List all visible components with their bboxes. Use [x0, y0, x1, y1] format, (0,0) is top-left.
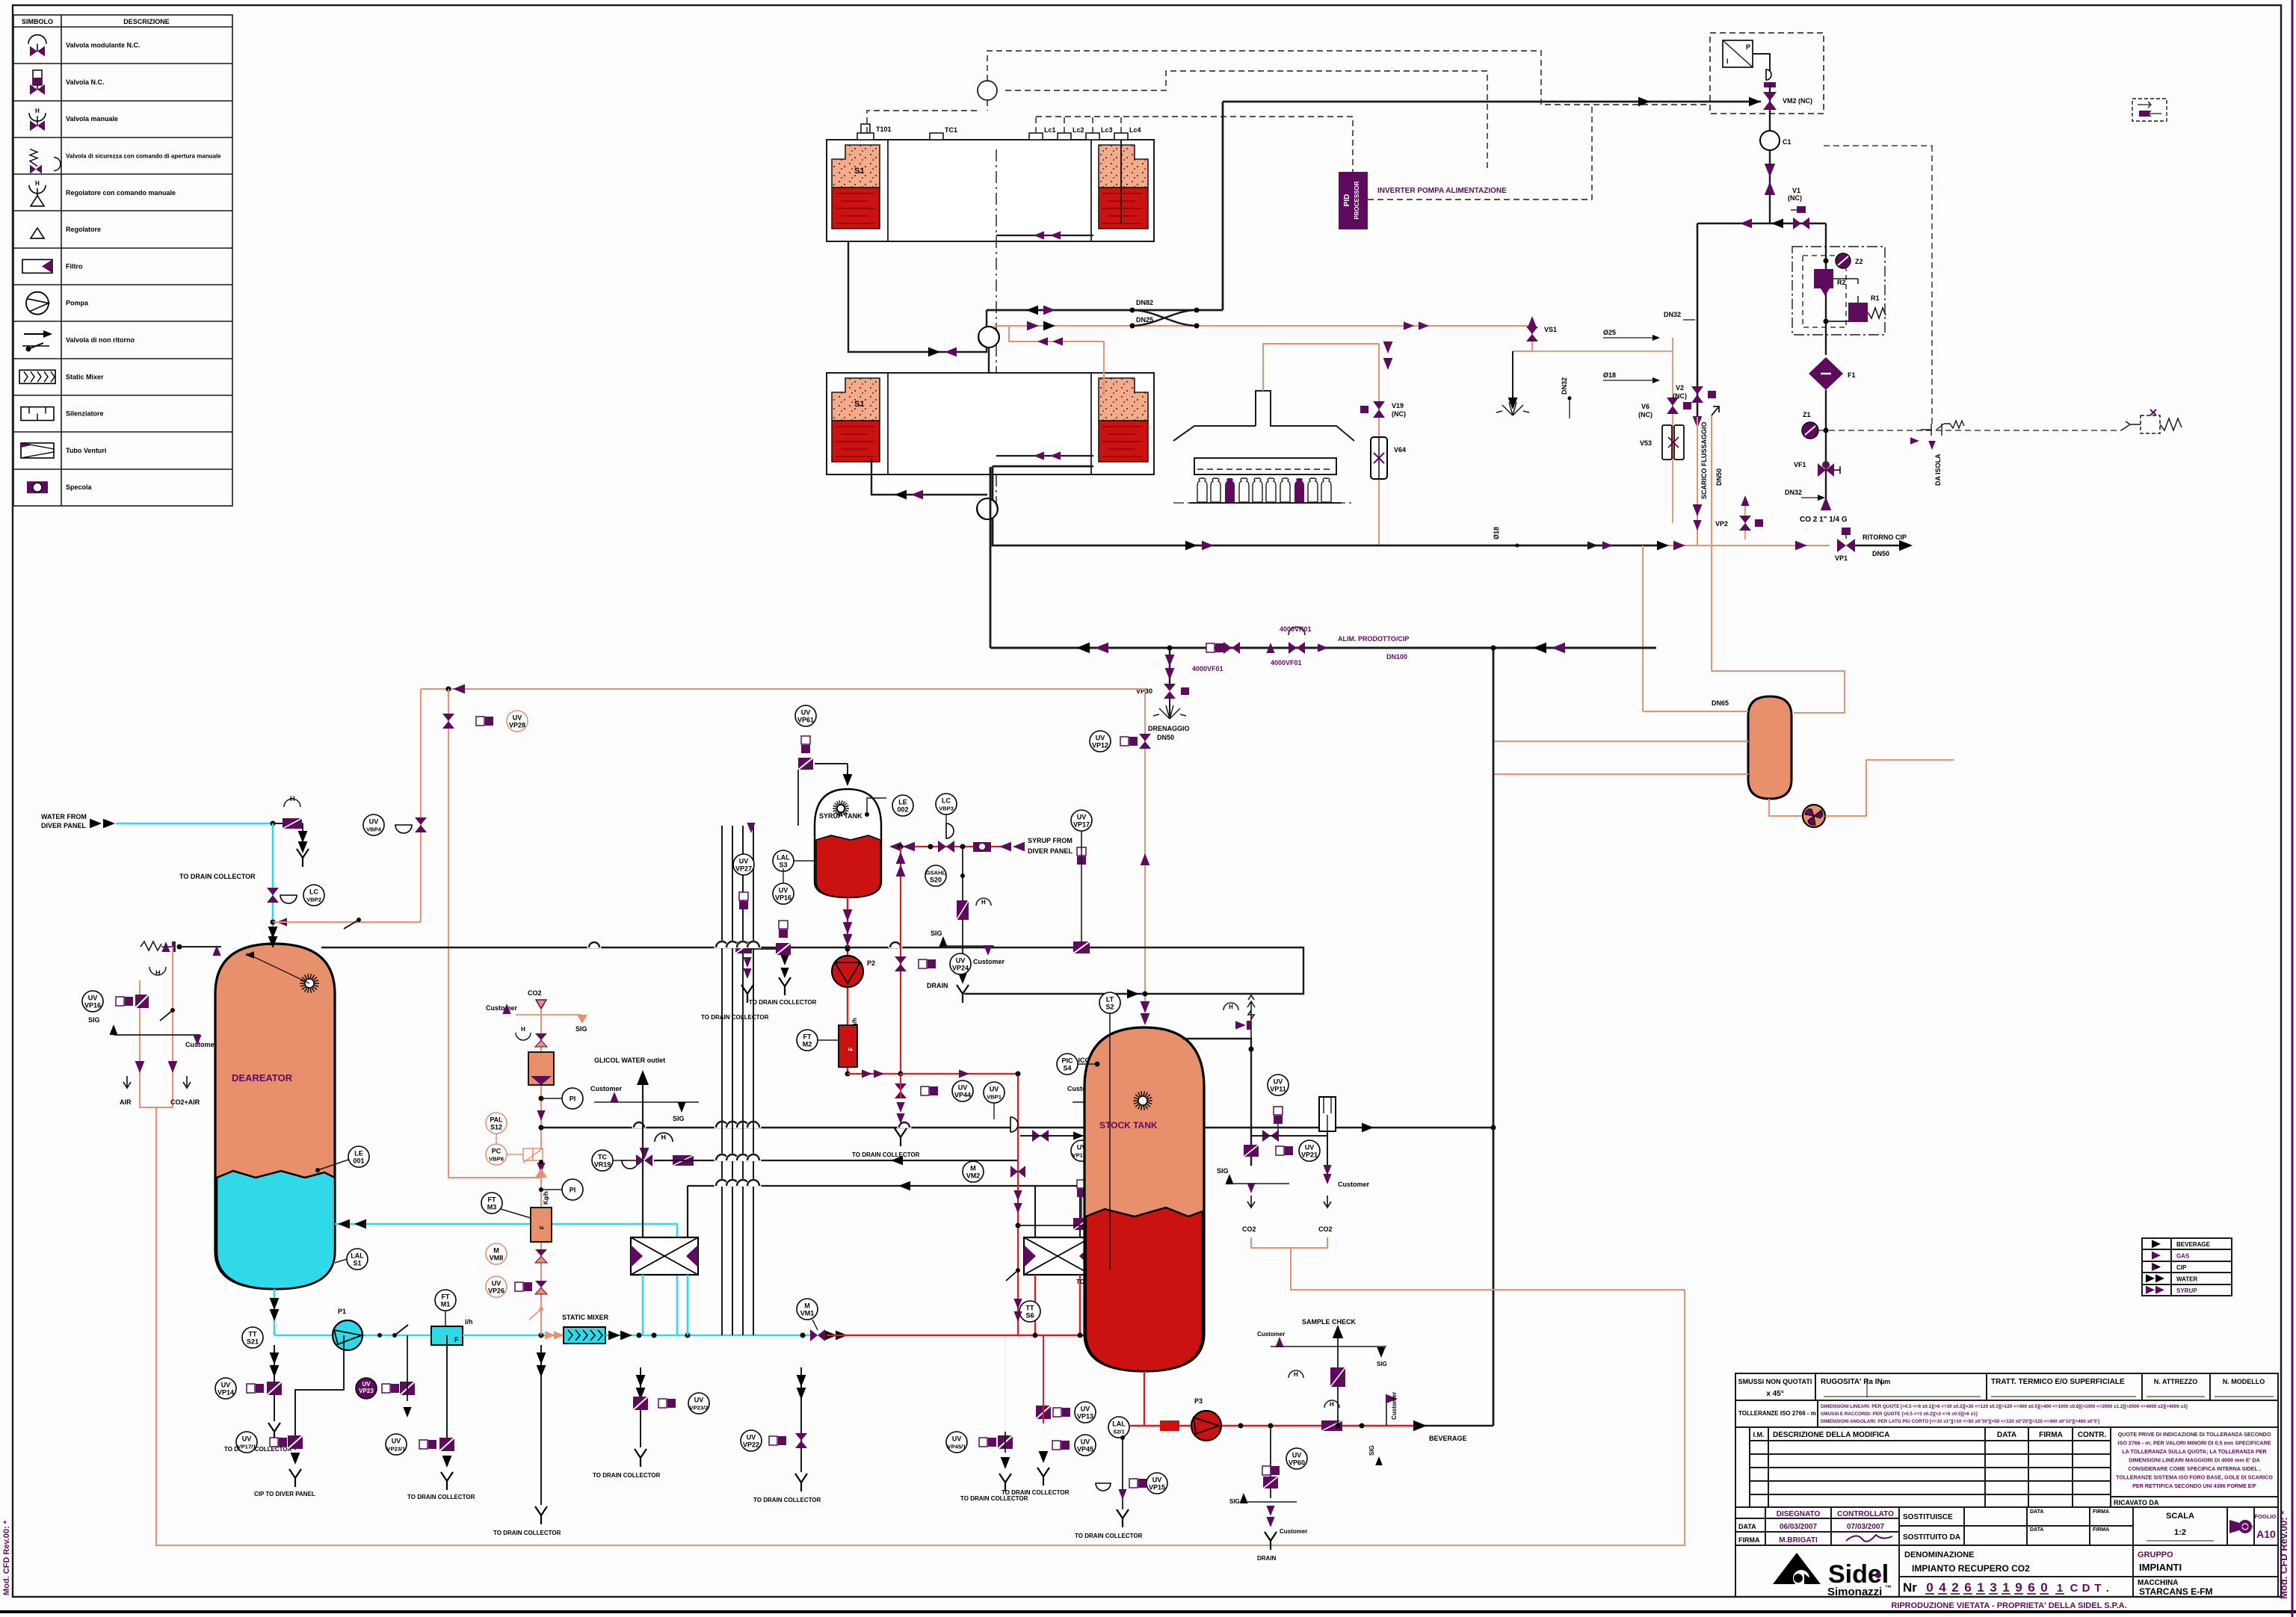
- CO2+AIR outlet: [183, 1076, 191, 1088]
- customer flag: [1386, 1403, 1387, 1426]
- svg-text:VBP1: VBP1: [987, 1094, 1002, 1101]
- svg-text:VP14: VP14: [217, 1389, 234, 1397]
- instrument UV VP15: [1147, 1473, 1167, 1494]
- svg-text:SIG: SIG: [673, 1115, 685, 1122]
- svg-text:DIVER PANEL: DIVER PANEL: [1028, 847, 1073, 855]
- svg-text:SIMBOLO: SIMBOLO: [22, 18, 53, 25]
- wire DN82 CO2 header: [987, 309, 1223, 312]
- svg-text:RUGOSITA' Ra IN: RUGOSITA' Ra IN: [1821, 1378, 1883, 1386]
- instrument UV VP60: [1286, 1448, 1307, 1469]
- instrument UV VBP1: [1155, 1072, 1176, 1092]
- gauge PI upper: [539, 1096, 544, 1101]
- drain column: [274, 1345, 275, 1421]
- wire gas balance deaerator to stock tank (orange): [421, 689, 1145, 1001]
- svg-text:UV: UV: [956, 957, 966, 965]
- svg-text:Customer: Customer: [185, 1041, 217, 1048]
- valve + UV VP21: [1244, 1145, 1259, 1157]
- machine centreline (dash-dot): [996, 149, 997, 516]
- svg-text:VP28: VP28: [509, 722, 525, 729]
- svg-text:Valvola modulante N.C.: Valvola modulante N.C.: [66, 42, 141, 49]
- svg-text:Customer: Customer: [590, 1085, 623, 1092]
- svg-text:DIMENSIONI ANGOLARI: PER LATO: DIMENSIONI ANGOLARI: PER LATO PIU CORTO …: [1821, 1418, 2099, 1424]
- svg-text:TO DRAIN COLLECTOR: TO DRAIN COLLECTOR: [593, 1472, 661, 1479]
- svg-text:2: 2: [1951, 1580, 1958, 1595]
- product block S1 left (red liquid): [832, 188, 880, 229]
- exchanger2 downcomers (red): [1034, 1275, 1036, 1335]
- svg-text:Pompa: Pompa: [66, 300, 89, 307]
- svg-text:SIG: SIG: [1377, 1361, 1387, 1367]
- svg-text:S1: S1: [854, 167, 864, 176]
- svg-text:DN32: DN32: [1664, 311, 1681, 318]
- valve UV VP16 row: [116, 997, 124, 1006]
- valve M VM8: [535, 1249, 547, 1256]
- svg-text:FOGLIO: FOGLIO: [2255, 1513, 2277, 1520]
- instrument UV VP28: [507, 711, 528, 732]
- svg-text:1: 1: [2057, 1582, 2063, 1595]
- instrument TT S21: [242, 1327, 263, 1348]
- svg-text:INVERTER POMPA ALIMENTAZIONE: INVERTER POMPA ALIMENTAZIONE: [1377, 187, 1507, 195]
- instrument FT M3: [481, 1193, 502, 1213]
- nozzle Lc2: [1058, 133, 1071, 140]
- instrument PI: [562, 1179, 583, 1200]
- wire CO2 top header: [1697, 223, 1826, 224]
- instrument UV VP12: [1090, 731, 1111, 752]
- orange continuation of V2 line: [1697, 417, 1698, 545]
- valve cluster 4000VF01: [1223, 642, 1232, 654]
- svg-text:R2: R2: [1837, 279, 1846, 286]
- svg-text:1: 1: [1977, 1580, 1984, 1595]
- instrument UV VP17/1: [236, 1432, 257, 1453]
- svg-text:DN100: DN100: [1386, 653, 1407, 661]
- relief with spring: [1247, 995, 1255, 1039]
- instrument UV VP22: [741, 1430, 762, 1451]
- svg-text:GSAHL: GSAHL: [926, 870, 946, 876]
- wire converter to valve VM2: [1753, 54, 1770, 71]
- stock tank bottom outlet: [1144, 1371, 1145, 1426]
- svg-text:UV: UV: [801, 709, 811, 717]
- instrument UV VP23/1: [386, 1434, 407, 1455]
- wire beverage (red): [1129, 1425, 1415, 1426]
- svg-text:LE: LE: [354, 1150, 363, 1157]
- svg-text:4: 4: [1939, 1580, 1946, 1595]
- valve 4000VR01 manual: [1289, 642, 1297, 654]
- svg-text:AIR: AIR: [120, 1098, 132, 1106]
- instrument UV VP45/1: [946, 1432, 967, 1453]
- wire CO2 column (orange): [540, 1009, 542, 1335]
- hand valve beverage: [1321, 1420, 1342, 1431]
- svg-text:S1: S1: [353, 1260, 361, 1267]
- svg-text:V1: V1: [1792, 187, 1800, 194]
- instrument PIC S4: [1057, 1054, 1078, 1075]
- svg-text:VP11: VP11: [1270, 1086, 1286, 1093]
- svg-text:PI: PI: [570, 1095, 576, 1103]
- svg-text:VP45: VP45: [1077, 1446, 1093, 1453]
- svg-text:S1: S1: [854, 400, 864, 409]
- wire machine outlet main: [993, 466, 1667, 545]
- svg-text:DN50: DN50: [1715, 469, 1723, 486]
- wire deaerator outlet (cyan): [274, 1289, 276, 1335]
- svg-text:LE: LE: [898, 799, 907, 806]
- svg-text:Customer: Customer: [1280, 1528, 1307, 1535]
- svg-text:UV: UV: [492, 1280, 502, 1287]
- svg-text:LA TOLLERANZA SULLA QUOTA; LA: LA TOLLERANZA SULLA QUOTA; LA TOLLERANZA…: [2122, 1448, 2267, 1455]
- svg-text:FIRMA: FIRMA: [2039, 1431, 2063, 1439]
- instrument M VM2: [963, 1161, 984, 1182]
- svg-text:ALIM. PRODOTTO/CIP: ALIM. PRODOTTO/CIP: [1338, 635, 1409, 643]
- island pressure regulator symbol: [2121, 421, 2141, 430]
- filter F1: [1809, 357, 1843, 390]
- svg-text:Valvola N.C.: Valvola N.C.: [66, 78, 105, 86]
- svg-text:F: F: [539, 1225, 546, 1229]
- svg-text:DATA: DATA: [2030, 1527, 2043, 1533]
- svg-text:SIG: SIG: [1217, 1167, 1229, 1175]
- svg-text:Valvola manuale: Valvola manuale: [66, 115, 118, 123]
- orange CIP drop into tank2 right: [1009, 326, 1104, 341]
- product block S1 right (speckled): [1099, 145, 1148, 188]
- wire drain header down (orange): [156, 1107, 1685, 1545]
- syrup liquid: [816, 835, 880, 897]
- svg-text:™: ™: [1885, 1584, 1892, 1592]
- svg-text:UV: UV: [392, 1438, 401, 1445]
- svg-text:DATA: DATA: [2030, 1509, 2043, 1515]
- svg-text:STOCK TANK: STOCK TANK: [1099, 1120, 1158, 1131]
- svg-text:VP23/1: VP23/1: [387, 1446, 407, 1453]
- valve LC VBP3: [946, 823, 954, 838]
- exchanger1 downcomers (cyan): [642, 1275, 644, 1335]
- valve V19 (NC): [1373, 401, 1385, 409]
- svg-text:Silenziatore: Silenziatore: [66, 410, 104, 418]
- branch VP30 drain: [1169, 648, 1170, 686]
- PID PROCESSOR box: [1339, 172, 1368, 229]
- heat exchanger 1: [631, 1237, 698, 1275]
- svg-text:VBP3: VBP3: [939, 806, 954, 812]
- svg-text:.: .: [2106, 1583, 2109, 1594]
- regulator R1: [1848, 303, 1868, 322]
- svg-text:Kg/h: Kg/h: [543, 1191, 549, 1205]
- CO2 heater: [528, 1052, 554, 1085]
- svg-text:BEVERAGE: BEVERAGE: [2176, 1241, 2211, 1248]
- instrument UV VP13: [1075, 1402, 1096, 1423]
- three way valve VR19: [636, 1154, 644, 1166]
- valve VF1: [1818, 463, 1826, 477]
- svg-text:TO DRAIN COLLECTOR: TO DRAIN COLLECTOR: [224, 1446, 292, 1453]
- wire ALIM PRODOTTO/CIP DN100: [990, 647, 1656, 649]
- valve UV VP28 stub: [448, 689, 449, 981]
- junction main line: [537, 1110, 545, 1121]
- svg-text:LAL: LAL: [777, 854, 790, 862]
- wire DN82 drop to tank 2: [848, 241, 987, 352]
- valve LC VBP2: [267, 888, 279, 895]
- svg-text:LC: LC: [942, 797, 951, 805]
- wire F1 to CO2 supply: [1825, 390, 1827, 499]
- vessel outlet to blower: [1769, 799, 1803, 816]
- level probe tank1 right: [1120, 140, 1122, 224]
- svg-text:D: D: [2082, 1582, 2090, 1595]
- svg-text:S21: S21: [247, 1338, 259, 1346]
- receiver vessel: [1748, 696, 1792, 799]
- svg-text:UV: UV: [513, 714, 522, 722]
- legend table frame: [13, 15, 232, 506]
- svg-text:N. MODELLO: N. MODELLO: [2223, 1378, 2265, 1385]
- wire vent to VBP4 (orange): [273, 921, 421, 923]
- svg-text:CO2+AIR: CO2+AIR: [170, 1098, 200, 1106]
- wire deaerator balance line: [321, 947, 1303, 994]
- svg-text:VP15: VP15: [1149, 1484, 1165, 1491]
- svg-text:ISO 2766 - m; PER VALORI MINOR: ISO 2766 - m; PER VALORI MINORI DI 0.5 m…: [2117, 1440, 2271, 1447]
- sight glass C1: [1769, 120, 1771, 223]
- svg-text:Nr: Nr: [1903, 1580, 1917, 1595]
- svg-text:VP44: VP44: [954, 1092, 971, 1099]
- svg-text:0: 0: [1926, 1580, 1933, 1595]
- svg-text:Simonazzi: Simonazzi: [1827, 1586, 1882, 1598]
- stock tank top outlet: [1182, 1039, 1251, 1166]
- nozzle Lc1: [1029, 133, 1043, 140]
- svg-text:TO DRAIN COLLECTOR: TO DRAIN COLLECTOR: [852, 1151, 920, 1158]
- wire glycol tempering: [654, 1160, 1018, 1161]
- svg-text:S2: S2: [1105, 1004, 1114, 1011]
- svg-text:4000VF01: 4000VF01: [1271, 659, 1302, 667]
- valve VP2 stub: [1744, 505, 1746, 539]
- svg-text:IMPIANTI: IMPIANTI: [2139, 1562, 2182, 1573]
- instrument LE 001: [318, 1160, 348, 1170]
- svg-text:UV: UV: [1305, 1144, 1315, 1151]
- wire deaerator vent corner: [420, 689, 422, 922]
- svg-text:Filtro: Filtro: [66, 262, 83, 270]
- valve UV VBP4: [415, 817, 427, 825]
- vent loop left (orange): [140, 947, 173, 1107]
- svg-text:07/03/2007: 07/03/2007: [1847, 1523, 1884, 1531]
- instrument UV VP61: [795, 705, 816, 726]
- svg-text:S6: S6: [1025, 1312, 1034, 1320]
- legend arrow WATER: [2146, 1274, 2155, 1282]
- svg-text:DN50: DN50: [1157, 734, 1174, 741]
- flow arrow legend table: [2142, 1238, 2232, 1296]
- svg-text:IMPIANTO RECUPERO CO2: IMPIANTO RECUPERO CO2: [1912, 1563, 2030, 1574]
- instrument LAL S1: [347, 1249, 368, 1270]
- svg-text:S20: S20: [930, 876, 942, 884]
- exchanger risers: [642, 1160, 644, 1237]
- valve VP1: [1837, 539, 1846, 552]
- svg-text:M: M: [970, 1165, 976, 1172]
- check valves on CO2 riser: [1765, 164, 1775, 177]
- svg-text:F: F: [454, 1336, 459, 1344]
- svg-text:UV: UV: [1096, 735, 1105, 742]
- svg-text:WATER: WATER: [2176, 1276, 2198, 1282]
- svg-text:Valvola di sicurezza con coman: Valvola di sicurezza con comando di aper…: [66, 153, 221, 160]
- svg-text:VP27: VP27: [735, 865, 752, 873]
- orange drop from CIP manifold: [1642, 545, 1644, 711]
- svg-text:T101: T101: [876, 126, 892, 133]
- deaerator vessel shell: [215, 944, 335, 1289]
- svg-text:M3: M3: [487, 1204, 497, 1211]
- svg-text:CONTROLLATO: CONTROLLATO: [1837, 1510, 1894, 1518]
- CIP to diver branch: [295, 1335, 344, 1450]
- svg-text:H: H: [155, 969, 161, 977]
- check arrows machine CO2: [1383, 341, 1393, 353]
- flow indicator lower: [977, 498, 998, 519]
- wire riser from DN82 header: [1222, 102, 1224, 310]
- pressure regulator VBP6: [507, 1154, 523, 1155]
- svg-text:SCARICO FLUSSAGGIO: SCARICO FLUSSAGGIO: [1700, 421, 1708, 499]
- instrument LE 001: [348, 1146, 369, 1167]
- svg-text:TO DRAIN COLLECTOR: TO DRAIN COLLECTOR: [493, 1530, 561, 1536]
- svg-text:VP17/1: VP17/1: [238, 1444, 257, 1450]
- nozzle TC1: [930, 133, 943, 140]
- stock tank shell: [1084, 1027, 1204, 1371]
- drain of water inlet: [302, 823, 303, 849]
- tank partition right: [1090, 373, 1092, 474]
- instrument LAL S3: [773, 850, 794, 871]
- level probe tank2 right (orange feed into S1): [1103, 341, 1105, 396]
- svg-text:Lc3: Lc3: [1101, 126, 1113, 134]
- instrument PI: [562, 1088, 583, 1109]
- svg-text:TT: TT: [1026, 1305, 1034, 1312]
- svg-text:TO DRAIN COLLECTOR: TO DRAIN COLLECTOR: [407, 1494, 475, 1500]
- title block frame: [1735, 1373, 2278, 1597]
- svg-text:Z1: Z1: [1803, 411, 1811, 418]
- svg-text:S12: S12: [490, 1124, 502, 1131]
- svg-text:H: H: [35, 108, 40, 114]
- instrument FT M1: [435, 1290, 456, 1311]
- instrument TT S6: [1019, 1301, 1040, 1322]
- pressure gauge Z2: [1836, 253, 1851, 268]
- nozzle Lc4: [1114, 133, 1128, 140]
- svg-text:TO DRAIN COLLECTOR: TO DRAIN COLLECTOR: [749, 999, 817, 1006]
- orange feed to machine hood: [1263, 344, 1379, 391]
- svg-text:0: 0: [2040, 1580, 2047, 1595]
- silencer: [1319, 1097, 1336, 1131]
- CO2 vents: [1247, 1196, 1255, 1208]
- svg-text:DRAIN: DRAIN: [927, 982, 948, 989]
- instrument UV VP26: [486, 1276, 507, 1297]
- P/I converter dashed box: [1710, 33, 1824, 114]
- svg-text:4000VR01: 4000VR01: [1280, 625, 1312, 633]
- svg-text:VP13: VP13: [1077, 1413, 1093, 1420]
- instrument UV VP27: [733, 854, 754, 875]
- svg-text:Customer: Customer: [1257, 1331, 1285, 1338]
- svg-text:Customer: Customer: [1391, 1392, 1398, 1420]
- svg-text:DESCRIZIONE DELLA MODIFICA: DESCRIZIONE DELLA MODIFICA: [1773, 1431, 1889, 1439]
- svg-text:RITORNO CIP: RITORNO CIP: [1863, 534, 1907, 541]
- svg-text:TO DRAIN COLLECTOR: TO DRAIN COLLECTOR: [753, 1497, 821, 1503]
- instrument FT M2: [797, 1030, 818, 1051]
- SCARICO FLUSSAGGIO branch: [1711, 415, 1712, 671]
- valve VS1: [1513, 326, 1532, 351]
- drain from tank2 left: [871, 459, 987, 495]
- svg-text:CO2: CO2: [1318, 1225, 1333, 1233]
- svg-text:FT: FT: [488, 1196, 496, 1204]
- instrument UV VP15/1: [1071, 1140, 1092, 1161]
- svg-text:UV: UV: [952, 1435, 962, 1443]
- svg-text:Lc2: Lc2: [1073, 126, 1084, 134]
- instrument UV VP16: [773, 883, 794, 904]
- relief spring assembly: [141, 942, 175, 950]
- wire water drop (cyan): [272, 823, 274, 944]
- svg-text:UV: UV: [1292, 1452, 1302, 1459]
- svg-text:N. ATTREZZO: N. ATTREZZO: [2154, 1378, 2198, 1385]
- svg-text:CIP: CIP: [2176, 1264, 2187, 1271]
- AIR outlet: [123, 1076, 131, 1088]
- svg-text:V19: V19: [1392, 402, 1404, 409]
- drain column: [540, 1345, 542, 1505]
- drain column: [640, 1367, 641, 1447]
- instrument UV VP14: [215, 1378, 236, 1399]
- svg-text:UV: UV: [958, 1084, 968, 1092]
- svg-text:Mod. CFD Rev.00: *: Mod. CFD Rev.00: *: [2278, 1510, 2289, 1599]
- regulator R2: [1814, 269, 1833, 288]
- svg-text:TRATT. TERMICO E/O SUPERFICIAL: TRATT. TERMICO E/O SUPERFICIALE: [1991, 1378, 2125, 1386]
- svg-text:H: H: [1229, 1004, 1233, 1010]
- svg-text:DATA: DATA: [1738, 1523, 1756, 1530]
- flow meter FT M1: [431, 1326, 463, 1345]
- svg-text:UV: UV: [990, 1086, 999, 1093]
- wire exchanger header: [688, 1185, 1080, 1187]
- dashed DA ISOLA line: [1931, 146, 1933, 426]
- svg-text:TO DRAIN COLLECTOR: TO DRAIN COLLECTOR: [701, 1014, 769, 1021]
- svg-text:Mod. CFD Rev.00: *: Mod. CFD Rev.00: *: [2, 1520, 11, 1595]
- svg-text:Customer: Customer: [973, 958, 1005, 965]
- svg-text:P1: P1: [338, 1308, 346, 1315]
- svg-text:PI: PI: [570, 1187, 576, 1194]
- svg-text:S2/1: S2/1: [1113, 1429, 1125, 1435]
- svg-text:VP24: VP24: [952, 965, 969, 972]
- svg-text:PROCESSOR: PROCESSOR: [1354, 181, 1360, 219]
- svg-text:PID: PID: [1343, 194, 1351, 207]
- svg-text:LT: LT: [1106, 996, 1114, 1004]
- svg-text:UV: UV: [1081, 1406, 1090, 1413]
- sight glass V53: [1662, 425, 1672, 460]
- svg-text:SIG: SIG: [1368, 1445, 1375, 1456]
- agitator symbol: [300, 974, 319, 993]
- svg-text:VM2 (NC): VM2 (NC): [1783, 97, 1812, 105]
- bottle row: [1197, 478, 1331, 502]
- nozzle T101: [857, 133, 874, 140]
- svg-text:DN32: DN32: [1561, 377, 1568, 395]
- svg-text:PER RETTIFICA SECONDO UNI 4386: PER RETTIFICA SECONDO UNI 4386 FORME E/F: [2132, 1482, 2256, 1489]
- svg-text:VP16: VP16: [775, 894, 791, 902]
- svg-text:UV: UV: [369, 818, 379, 826]
- outer bottom border bar: [0, 1610, 2296, 1613]
- svg-text:Z2: Z2: [1855, 258, 1863, 265]
- svg-text:V2: V2: [1676, 384, 1684, 392]
- svg-text:Regolatore: Regolatore: [66, 226, 101, 233]
- instrument LE 002: [867, 798, 886, 814]
- svg-text:SOSTITUISCE: SOSTITUISCE: [1903, 1513, 1953, 1521]
- machine hood: [1173, 391, 1354, 441]
- svg-text:l/h: l/h: [465, 1318, 473, 1326]
- svg-text:Ø25: Ø25: [1603, 329, 1616, 336]
- svg-text:GAS: GAS: [2176, 1253, 2190, 1260]
- svg-text:FT: FT: [803, 1033, 812, 1041]
- wire RITORNO CIP: [1855, 545, 1904, 547]
- tank partition right: [1090, 140, 1092, 241]
- instrument LC VBP3: [936, 794, 957, 814]
- valve UV VP23/2: [633, 1397, 648, 1410]
- svg-text:H: H: [1330, 1401, 1334, 1408]
- valve UV VP44: [895, 1083, 907, 1091]
- valve V1 (NC): [1793, 217, 1801, 229]
- svg-text:(NC): (NC): [1392, 410, 1406, 418]
- svg-text:TOLLERANZE ISO 2766 - m: TOLLERANZE ISO 2766 - m: [1738, 1410, 1816, 1417]
- svg-text:M2: M2: [803, 1041, 812, 1048]
- svg-text:WATER FROM: WATER FROM: [41, 813, 87, 820]
- wire blower outlet: [1825, 760, 1954, 816]
- svg-text:UV: UV: [88, 995, 98, 1002]
- coupling syrup: [973, 842, 991, 852]
- svg-text:M.BRIGATI: M.BRIGATI: [1779, 1536, 1818, 1545]
- svg-text:TO DRAIN COLLECTOR: TO DRAIN COLLECTOR: [179, 873, 256, 880]
- svg-text:VP1: VP1: [1835, 554, 1848, 562]
